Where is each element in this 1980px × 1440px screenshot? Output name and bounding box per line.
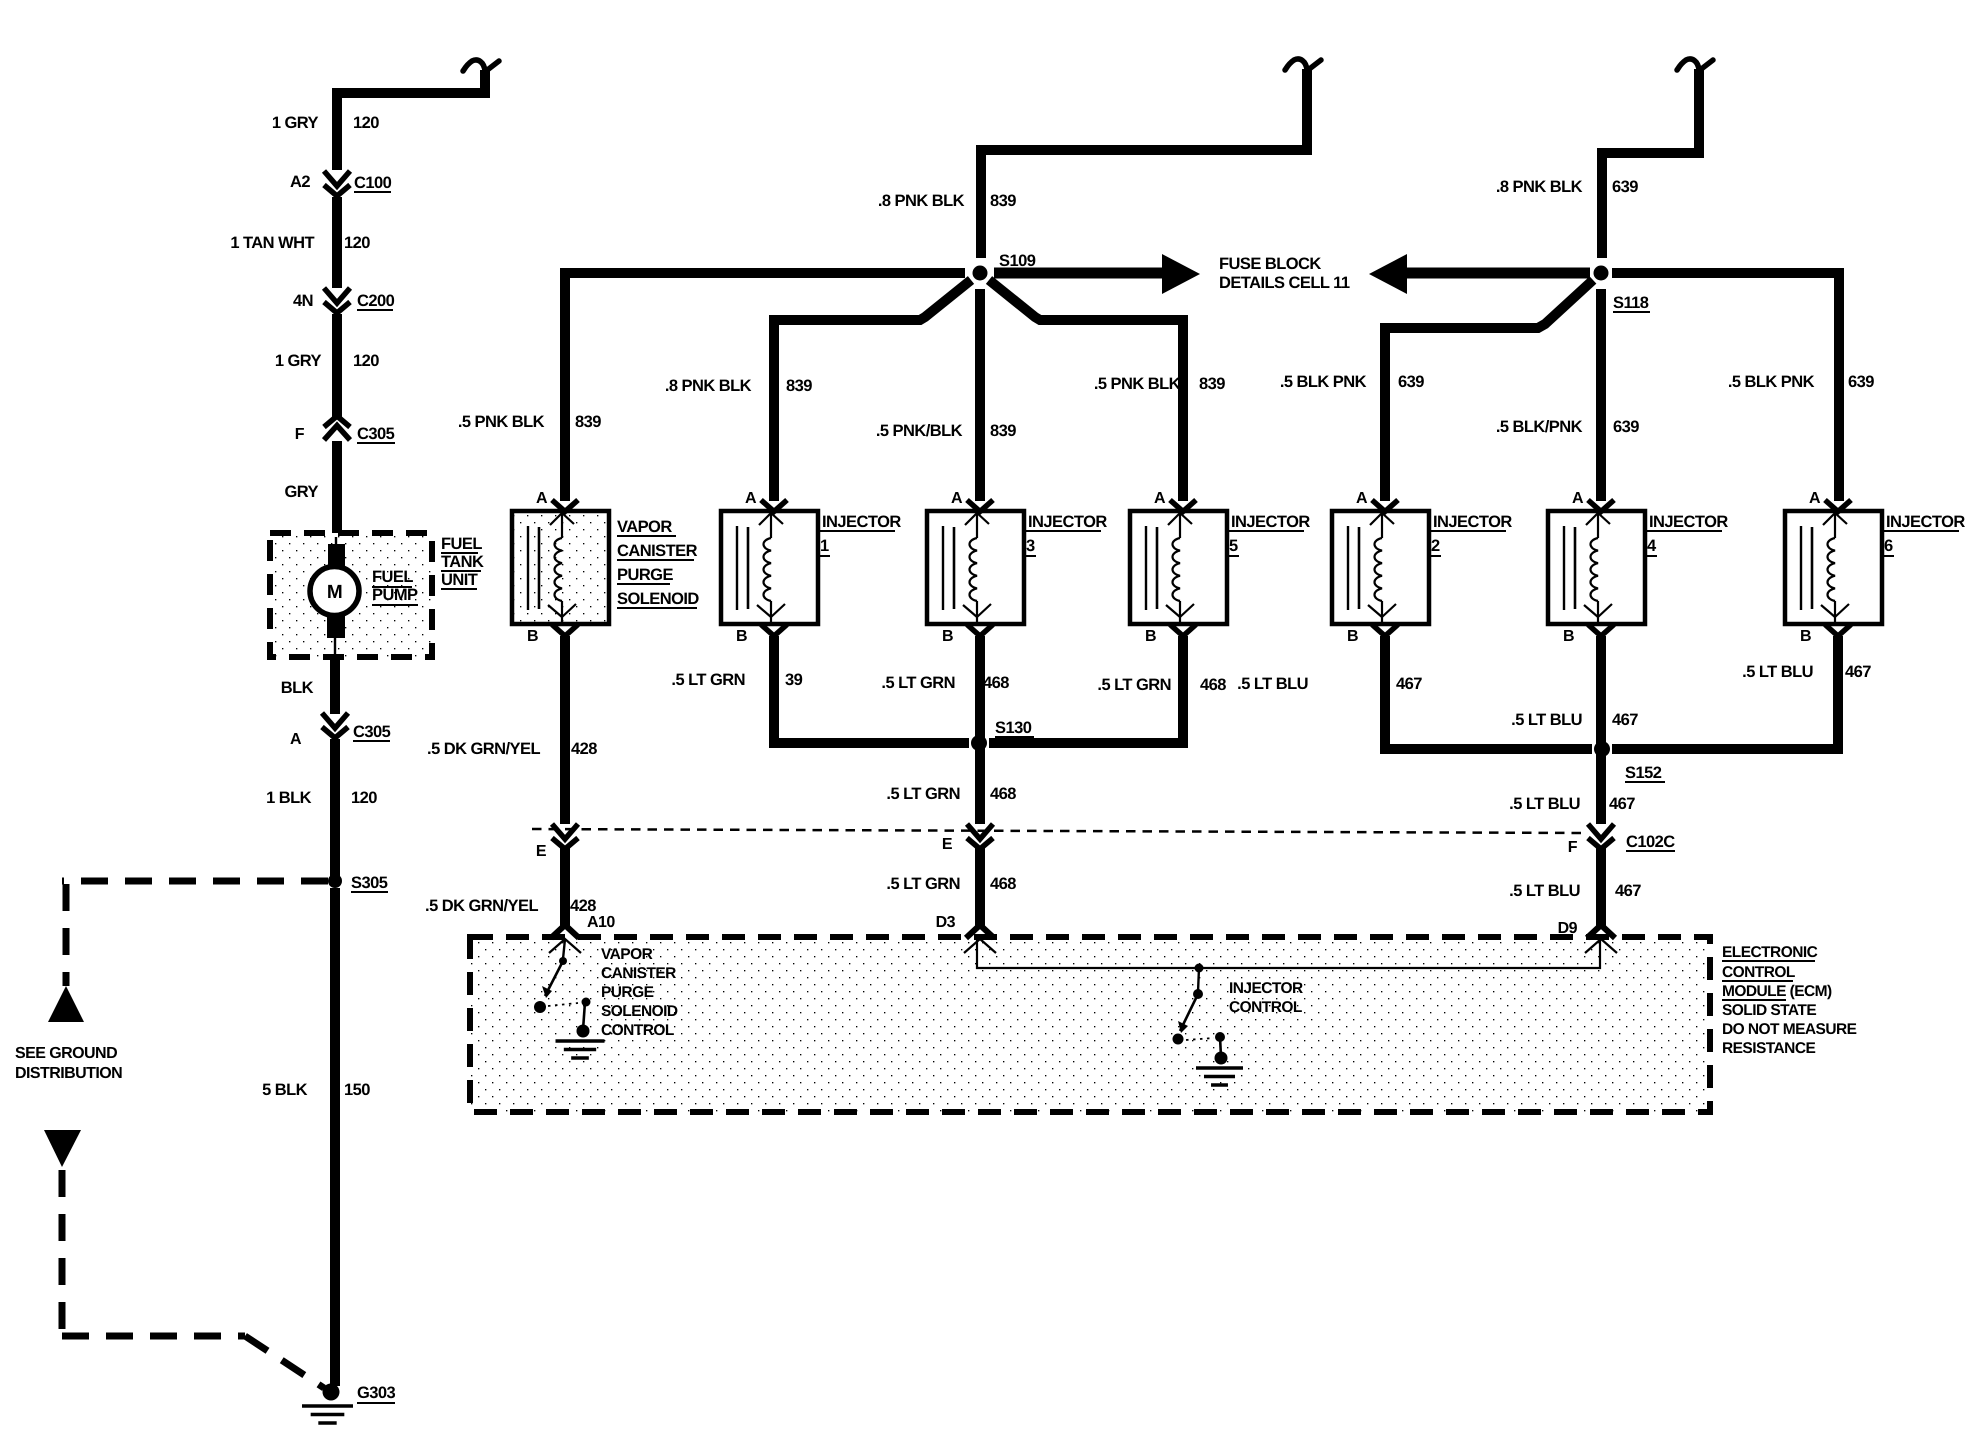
svg-text:S118: S118 (1613, 294, 1649, 312)
svg-text:M: M (327, 582, 342, 603)
svg-text:A: A (1572, 490, 1584, 507)
svg-text:C305: C305 (357, 425, 395, 443)
svg-text:639: 639 (1613, 418, 1639, 436)
svg-text:.8 PNK BLK: .8 PNK BLK (878, 192, 965, 210)
svg-text:B: B (1563, 628, 1574, 645)
svg-text:B: B (1145, 628, 1156, 645)
injector 5 (1130, 500, 1227, 636)
svg-text:C102C: C102C (1626, 833, 1675, 851)
injector 4 (1548, 500, 1645, 636)
wire S109 left arm to vapor canister purge solenoid (565, 273, 965, 501)
injector control driver in ECM (1173, 964, 1228, 1065)
injector 2 (1332, 500, 1429, 636)
wire injector 6 B to splice S152 (1612, 636, 1838, 749)
svg-text:A2: A2 (290, 173, 310, 191)
svg-text:5: 5 (1229, 537, 1238, 555)
ECM internal ground (solenoid driver) (556, 1041, 605, 1058)
svg-text:FUSE BLOCK: FUSE BLOCK (1219, 255, 1321, 273)
svg-text:MODULE (ECM): MODULE (ECM) (1722, 983, 1832, 1000)
svg-text:839: 839 (990, 422, 1016, 440)
svg-text:839: 839 (990, 192, 1016, 210)
wire .5 LT GRN to D3 (975, 848, 985, 926)
connector C100 pin A2 (324, 171, 350, 196)
down arrow from ground distribution (44, 1130, 81, 1167)
wire feed from fuse block to fuel pump (top left) (337, 93, 486, 170)
svg-text:839: 839 (575, 413, 601, 431)
svg-text:A: A (745, 490, 757, 507)
connector C200 pin 4N (324, 288, 350, 313)
svg-text:3: 3 (1026, 537, 1035, 555)
injector 1 (721, 500, 818, 636)
svg-text:UNIT: UNIT (441, 571, 478, 589)
ECM dashed box (470, 937, 1710, 1112)
svg-text:CONTROL: CONTROL (1229, 999, 1302, 1016)
svg-text:468: 468 (990, 785, 1016, 803)
svg-text:.5 LT GRN: .5 LT GRN (886, 875, 960, 893)
wire S109 diagonal to injector 1 (774, 280, 971, 501)
svg-text:4: 4 (1647, 537, 1657, 555)
wire S118 right arm to injector 6 (1612, 273, 1839, 501)
svg-text:839: 839 (1199, 375, 1225, 393)
wire injector 4 B through S152 (1596, 636, 1606, 824)
svg-text:DISTRIBUTION: DISTRIBUTION (15, 1065, 122, 1082)
svg-text:468: 468 (983, 674, 1009, 692)
svg-text:.5 PNK BLK: .5 PNK BLK (458, 413, 545, 431)
svg-text:INJECTOR: INJECTOR (1886, 513, 1965, 531)
svg-text:467: 467 (1612, 711, 1638, 729)
svg-text:RESISTANCE: RESISTANCE (1722, 1040, 1815, 1057)
svg-text:D3: D3 (936, 914, 956, 931)
svg-text:CONTROL: CONTROL (1722, 964, 1795, 981)
connector C102C pin F (1588, 824, 1614, 849)
fuel pump motor M (310, 537, 359, 657)
svg-text:INJECTOR: INJECTOR (1229, 980, 1303, 997)
svg-text:PURGE: PURGE (601, 984, 654, 1001)
svg-text:467: 467 (1396, 675, 1422, 693)
up arrow to ground distribution (48, 986, 84, 1022)
svg-text:.5 DK GRN/YEL: .5 DK GRN/YEL (427, 740, 540, 758)
svg-text:468: 468 (1200, 676, 1226, 694)
svg-text:.5 BLK PNK: .5 BLK PNK (1728, 373, 1815, 391)
svg-text:467: 467 (1615, 882, 1641, 900)
svg-text:PURGE: PURGE (617, 566, 673, 584)
svg-text:FUEL: FUEL (441, 535, 482, 553)
svg-text:SOLID STATE: SOLID STATE (1722, 1002, 1816, 1019)
svg-text:.5 LT BLU: .5 LT BLU (1509, 882, 1580, 900)
arrow to fuse block details (994, 254, 1200, 294)
svg-text:B: B (1347, 628, 1358, 645)
injector 3 (927, 500, 1024, 636)
svg-text:G303: G303 (357, 1384, 396, 1402)
svg-text:INJECTOR: INJECTOR (1231, 513, 1310, 531)
svg-text:B: B (942, 628, 953, 645)
svg-text:A: A (1356, 490, 1368, 507)
svg-text:.5 LT GRN: .5 LT GRN (881, 674, 955, 692)
svg-text:.5 LT GRN: .5 LT GRN (671, 671, 745, 689)
wire feed from fuse to S109 (981, 92, 1307, 258)
svg-text:DETAILS CELL 11: DETAILS CELL 11 (1219, 274, 1350, 292)
wire S118 down to injector 4 (1596, 289, 1606, 501)
svg-text:A: A (1809, 490, 1821, 507)
svg-text:S130: S130 (995, 719, 1032, 737)
vapor canister purge solenoid control driver in ECM (534, 939, 591, 1038)
svg-text:INJECTOR: INJECTOR (1028, 513, 1107, 531)
svg-text:CANISTER: CANISTER (617, 542, 698, 560)
svg-text:.8 PNK BLK: .8 PNK BLK (665, 377, 752, 395)
connector C102 pin E (solenoid wire) (552, 824, 578, 849)
dashed ground-distribution reference path (62, 881, 328, 1388)
svg-text:4N: 4N (293, 292, 313, 310)
svg-text:.5 DK GRN/YEL: .5 DK GRN/YEL (425, 897, 538, 915)
wire .5 DK GRN/YEL to A10 (560, 848, 570, 926)
svg-text:B: B (527, 628, 538, 645)
svg-text:TANK: TANK (441, 553, 484, 571)
svg-text:F: F (295, 426, 305, 443)
off-page continuation hook left (463, 60, 499, 98)
svg-text:D9: D9 (1558, 920, 1578, 937)
svg-text:467: 467 (1609, 795, 1635, 813)
splice S305 (328, 874, 342, 888)
wire feed from fuse to S118 (1602, 92, 1699, 258)
splice S118 (1594, 266, 1609, 281)
solenoid: vapor canister purge solenoid (512, 500, 609, 636)
svg-text:A: A (1154, 490, 1166, 507)
svg-text:A: A (536, 490, 548, 507)
ground G303 junction dot (323, 1384, 340, 1401)
svg-text:2: 2 (1431, 537, 1440, 555)
svg-text:B: B (1800, 628, 1811, 645)
wire injector 2 B to splice S152 (1385, 636, 1592, 749)
ground symbol G303 (302, 1406, 353, 1423)
svg-text:428: 428 (570, 897, 596, 915)
svg-text:428: 428 (571, 740, 597, 758)
connector C305 pin F (324, 416, 350, 440)
svg-text:VAPOR: VAPOR (601, 946, 653, 963)
svg-text:B: B (736, 628, 747, 645)
svg-text:FUEL: FUEL (372, 568, 413, 586)
connector C102 pin E (injector wire) (967, 824, 993, 849)
svg-text:39: 39 (785, 671, 803, 689)
svg-text:1: 1 (820, 537, 829, 555)
wire injector 3 B through S130 (975, 636, 985, 824)
svg-text:1 GRY: 1 GRY (272, 114, 319, 132)
ECM pin D9 entry (1585, 925, 1617, 953)
svg-text:C100: C100 (354, 174, 392, 192)
svg-text:120: 120 (353, 352, 379, 370)
svg-text:INJECTOR: INJECTOR (1649, 513, 1728, 531)
svg-text:.5 PNK/BLK: .5 PNK/BLK (876, 422, 963, 440)
connector C305 pin A (322, 713, 348, 738)
wire solenoid B to ECM pin A10 (560, 636, 570, 824)
svg-text:S305: S305 (351, 874, 388, 892)
svg-text:CANISTER: CANISTER (601, 965, 676, 982)
wire GRY to fuel pump (332, 441, 342, 536)
svg-text:SEE GROUND: SEE GROUND (15, 1045, 117, 1062)
svg-text:.5 LT GRN: .5 LT GRN (886, 785, 960, 803)
svg-text:639: 639 (1398, 373, 1424, 391)
wire .5 LT BLU to D9 (1596, 848, 1606, 926)
svg-text:839: 839 (786, 377, 812, 395)
wire S109 down to injector 3 (975, 289, 985, 501)
off-page continuation hook middle (1285, 59, 1321, 97)
svg-text:SOLENOID: SOLENOID (617, 590, 699, 608)
splice S152 (1594, 741, 1610, 757)
svg-text:A: A (951, 490, 963, 507)
svg-text:.5 LT BLU: .5 LT BLU (1509, 795, 1580, 813)
wire injector 1 B to splice S130 (774, 636, 969, 743)
svg-text:.5 LT GRN: .5 LT GRN (1097, 676, 1171, 694)
svg-text:A: A (290, 731, 302, 748)
svg-text:C305: C305 (353, 723, 391, 741)
injector 6 (1785, 500, 1882, 636)
svg-text:E: E (942, 836, 953, 853)
svg-text:.5 PNK BLK: .5 PNK BLK (1094, 375, 1181, 393)
svg-text:VAPOR: VAPOR (617, 518, 672, 536)
svg-text:CONTROL: CONTROL (601, 1022, 674, 1039)
svg-text:S152: S152 (1625, 764, 1662, 782)
ECM pin D3 entry (964, 925, 996, 953)
svg-text:.5 BLK/PNK: .5 BLK/PNK (1496, 418, 1583, 436)
wire S118 diagonal to injector 2 (1385, 280, 1593, 501)
svg-text:1 GRY: 1 GRY (275, 352, 322, 370)
svg-text:120: 120 (353, 114, 379, 132)
svg-text:F: F (1568, 839, 1578, 856)
svg-text:120: 120 (351, 789, 377, 807)
wire 5 BLK 150 to ground (330, 888, 340, 1386)
svg-text:.5 LT BLU: .5 LT BLU (1742, 663, 1813, 681)
splice S130 (971, 735, 987, 751)
svg-text:ELECTRONIC: ELECTRONIC (1722, 944, 1818, 961)
injector control signal line D3-D9 (977, 940, 1600, 968)
svg-text:PUMP: PUMP (372, 586, 418, 604)
splice S109 (973, 266, 988, 281)
svg-text:5 BLK: 5 BLK (262, 1081, 308, 1099)
svg-text:.5 LT BLU: .5 LT BLU (1237, 675, 1308, 693)
connector line C102 dashed (532, 829, 1588, 833)
svg-text:120: 120 (344, 234, 370, 252)
svg-text:639: 639 (1612, 178, 1638, 196)
svg-text:S109: S109 (999, 252, 1036, 270)
wire S109 diagonal to injector 5 (989, 280, 1183, 501)
wire injector 5 B to splice S130 (989, 636, 1183, 743)
svg-text:A10: A10 (587, 914, 615, 931)
wire 1 TAN WHT 120 (332, 197, 342, 288)
svg-text:DO NOT MEASURE: DO NOT MEASURE (1722, 1021, 1857, 1038)
svg-text:639: 639 (1848, 373, 1874, 391)
svg-text:.8 PNK BLK: .8 PNK BLK (1496, 178, 1583, 196)
svg-text:.5 LT BLU: .5 LT BLU (1511, 711, 1582, 729)
wire 1 GRY 120 segment 2 (332, 314, 342, 417)
ECM pin A10 entry (549, 925, 581, 953)
svg-text:.5 BLK PNK: .5 BLK PNK (1280, 373, 1367, 391)
svg-text:6: 6 (1884, 537, 1893, 555)
svg-text:467: 467 (1845, 663, 1871, 681)
off-page continuation hook right (1677, 59, 1713, 97)
svg-text:E: E (536, 843, 547, 860)
fuel tank unit dashed box (270, 533, 432, 657)
svg-text:1 BLK: 1 BLK (266, 789, 312, 807)
svg-text:468: 468 (990, 875, 1016, 893)
wire 1 BLK 120 (330, 739, 340, 884)
svg-text:GRY: GRY (285, 483, 319, 501)
arrow to fuse block details (left pointing) (1369, 254, 1590, 294)
svg-text:SOLENOID: SOLENOID (601, 1003, 678, 1020)
wire BLK from fuel pump (330, 657, 340, 714)
svg-text:BLK: BLK (281, 679, 314, 697)
svg-text:150: 150 (344, 1081, 370, 1099)
ECM internal ground (injector driver) (1196, 1068, 1243, 1085)
svg-text:C200: C200 (357, 292, 395, 310)
svg-text:1 TAN WHT: 1 TAN WHT (230, 234, 314, 252)
svg-text:INJECTOR: INJECTOR (822, 513, 901, 531)
svg-text:INJECTOR: INJECTOR (1433, 513, 1512, 531)
